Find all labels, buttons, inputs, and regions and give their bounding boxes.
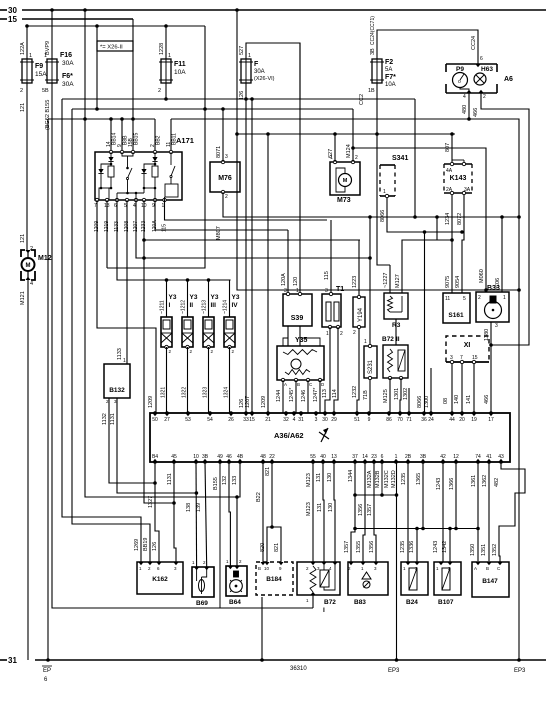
svg-text:6: 6 — [381, 454, 384, 460]
svg-text:BB11: BB11 — [172, 133, 178, 145]
svg-text:8066: 8066 — [380, 210, 386, 222]
svg-text:42: 42 — [440, 454, 446, 460]
svg-text:5: 5 — [463, 296, 466, 302]
svg-text:M123: M123 — [306, 502, 312, 516]
svg-text:S39: S39 — [291, 315, 304, 322]
svg-text:3: 3 — [450, 355, 453, 361]
svg-text:3: 3 — [315, 417, 318, 423]
svg-text:1365: 1365 — [416, 473, 422, 485]
svg-text:10: 10 — [193, 454, 199, 460]
svg-text:~1213: ~1213 — [202, 300, 208, 314]
svg-text:1: 1 — [248, 53, 251, 59]
svg-text:466: 466 — [484, 395, 490, 404]
svg-text:43: 43 — [498, 454, 504, 460]
svg-text:BB15: BB15 — [134, 133, 140, 145]
svg-text:36: 36 — [421, 417, 427, 423]
svg-text:S231: S231 — [368, 359, 374, 374]
svg-text:50: 50 — [152, 417, 158, 423]
svg-text:B4: B4 — [152, 454, 158, 460]
svg-text:~1211: ~1211 — [160, 300, 166, 314]
svg-text:M: M — [26, 263, 31, 269]
svg-text:130: 130 — [328, 503, 334, 512]
svg-text:B: B — [258, 566, 261, 571]
svg-text:14: 14 — [362, 454, 368, 460]
svg-text:131: 131 — [316, 473, 322, 482]
svg-text:4A: 4A — [446, 168, 453, 174]
svg-text:21: 21 — [265, 417, 271, 423]
svg-text:37: 37 — [352, 454, 358, 460]
svg-text:2: 2 — [483, 94, 486, 100]
svg-text:27: 27 — [164, 417, 170, 423]
svg-text:1: 1 — [29, 53, 32, 59]
svg-text:2: 2 — [20, 88, 23, 94]
svg-text:31: 31 — [8, 656, 17, 665]
svg-text:1234: 1234 — [445, 213, 451, 225]
svg-text:M123: M123 — [306, 473, 312, 487]
svg-text:1: 1 — [326, 331, 329, 337]
svg-text:M807: M807 — [216, 226, 222, 240]
svg-text:122A: 122A — [20, 42, 26, 55]
svg-text:1327: 1327 — [148, 496, 154, 508]
svg-text:K162: K162 — [152, 576, 168, 583]
svg-text:11: 11 — [445, 296, 450, 302]
svg-text:1356: 1356 — [358, 504, 364, 516]
svg-text:B: B — [297, 382, 300, 387]
svg-text:32: 32 — [283, 417, 289, 423]
svg-text:EP: EP — [43, 668, 51, 674]
svg-text:30A: 30A — [62, 60, 74, 67]
svg-text:2: 2 — [353, 330, 356, 336]
svg-text:120: 120 — [293, 277, 299, 286]
svg-text:807: 807 — [445, 143, 451, 152]
svg-text:140: 140 — [454, 395, 460, 404]
svg-text:S341: S341 — [392, 155, 408, 162]
svg-text:1131: 1131 — [167, 473, 173, 485]
svg-text:B147: B147 — [482, 578, 498, 585]
svg-text:A: A — [284, 382, 287, 387]
svg-text:1269: 1269 — [134, 539, 140, 551]
svg-text:~1212: ~1212 — [181, 300, 187, 314]
svg-text:2: 2 — [225, 194, 228, 200]
svg-text:1B: 1B — [368, 88, 375, 94]
svg-text:3B: 3B — [202, 454, 209, 460]
svg-text:4: 4 — [463, 94, 466, 100]
svg-text:1300: 1300 — [424, 396, 430, 408]
svg-text:A36/A62: A36/A62 — [274, 431, 304, 440]
svg-text:B69: B69 — [196, 600, 208, 607]
svg-text:08: 08 — [443, 398, 449, 404]
svg-text:2: 2 — [340, 331, 343, 337]
svg-text:1247*: 1247* — [313, 387, 319, 402]
svg-text:1: 1 — [364, 339, 367, 345]
svg-text:30: 30 — [322, 417, 328, 423]
svg-text:1352: 1352 — [492, 544, 498, 556]
svg-text:820: 820 — [260, 543, 266, 552]
svg-text:15: 15 — [8, 15, 17, 24]
svg-text:1235: 1235 — [400, 541, 406, 553]
svg-text:29: 29 — [331, 417, 337, 423]
svg-text:10: 10 — [264, 566, 270, 571]
svg-text:5B: 5B — [42, 88, 49, 94]
svg-text:B64: B64 — [229, 599, 241, 606]
svg-text:1235: 1235 — [401, 473, 407, 485]
svg-text:3: 3 — [225, 154, 228, 160]
svg-text:Y3: Y3 — [190, 294, 198, 301]
svg-text:M132A: M132A — [367, 470, 373, 488]
svg-text:3B: 3B — [420, 454, 427, 460]
svg-text:821: 821 — [274, 543, 280, 552]
svg-text:M132D: M132D — [391, 470, 397, 488]
svg-text:133: 133 — [232, 476, 238, 485]
svg-text:M124: M124 — [346, 144, 352, 158]
svg-text:1: 1 — [503, 295, 506, 301]
svg-text:1223: 1223 — [352, 276, 358, 288]
svg-text:26: 26 — [228, 417, 234, 423]
svg-text:1362: 1362 — [482, 475, 488, 487]
svg-text:138: 138 — [186, 503, 192, 512]
svg-text:48: 48 — [260, 454, 266, 460]
svg-text:8071: 8071 — [216, 146, 222, 158]
svg-text:A: A — [474, 566, 477, 571]
svg-text:M12: M12 — [38, 255, 52, 262]
svg-text:1323: 1323 — [203, 387, 209, 398]
svg-text:M060: M060 — [479, 269, 485, 283]
svg-text:Y3: Y3 — [169, 294, 177, 301]
svg-text:1246: 1246 — [301, 390, 307, 402]
svg-text:1322: 1322 — [182, 387, 188, 398]
svg-text:1366: 1366 — [449, 478, 455, 490]
svg-text:II: II — [190, 302, 194, 309]
svg-text:54: 54 — [207, 417, 213, 423]
svg-text:IV: IV — [232, 302, 239, 309]
svg-text:B22: B22 — [256, 492, 262, 502]
svg-text:1209: 1209 — [148, 396, 154, 408]
svg-text:1344: 1344 — [348, 470, 354, 482]
svg-text:F16: F16 — [60, 52, 72, 59]
svg-text:9: 9 — [368, 417, 371, 423]
svg-text:45: 45 — [171, 454, 177, 460]
svg-text:1321: 1321 — [161, 387, 167, 398]
svg-text:H63: H63 — [481, 66, 493, 73]
svg-text:1244: 1244 — [276, 390, 282, 402]
svg-text:1: 1 — [168, 53, 171, 59]
svg-text:1: 1 — [44, 53, 47, 59]
svg-text:33: 33 — [243, 417, 249, 423]
svg-text:482: 482 — [494, 478, 500, 487]
svg-text:7: 7 — [460, 355, 463, 361]
svg-text:B184: B184 — [266, 576, 282, 583]
svg-text:F: F — [254, 61, 259, 68]
svg-text:1243: 1243 — [433, 541, 439, 553]
svg-text:15: 15 — [249, 417, 255, 423]
svg-text:CC24: CC24 — [471, 36, 477, 50]
svg-text:17: 17 — [488, 417, 494, 423]
svg-text:F9: F9 — [35, 63, 43, 70]
svg-text:120A: 120A — [281, 273, 287, 286]
svg-text:B107: B107 — [438, 599, 454, 606]
svg-text:1207: 1207 — [245, 396, 251, 408]
svg-text:CC24(CC71): CC24(CC71) — [370, 16, 376, 45]
svg-text:~1227: ~1227 — [383, 273, 389, 288]
svg-text:627: 627 — [328, 149, 334, 158]
svg-text:(X26-VI): (X26-VI) — [254, 76, 275, 82]
svg-text:9075: 9075 — [445, 276, 451, 288]
svg-text:1357: 1357 — [367, 504, 373, 516]
svg-text:F2: F2 — [385, 59, 393, 66]
svg-text:P9: P9 — [456, 66, 464, 73]
svg-text:13: 13 — [331, 454, 337, 460]
svg-text:1232: 1232 — [352, 386, 358, 398]
svg-text:19: 19 — [471, 417, 477, 423]
svg-text:1: 1 — [383, 189, 386, 195]
svg-text:10A: 10A — [174, 69, 186, 76]
svg-text:1131: 1131 — [110, 413, 116, 425]
svg-text:15A: 15A — [35, 71, 47, 78]
svg-text:1351: 1351 — [481, 544, 487, 556]
svg-text:K143: K143 — [450, 175, 467, 182]
svg-text:5A: 5A — [385, 67, 392, 73]
svg-text:1357: 1357 — [344, 541, 350, 553]
svg-text:4: 4 — [293, 417, 296, 423]
svg-text:1209: 1209 — [261, 396, 267, 408]
svg-text:527: 527 — [239, 46, 245, 55]
svg-text:3: 3 — [495, 323, 498, 329]
svg-text:31: 31 — [298, 417, 304, 423]
svg-text:126: 126 — [152, 542, 158, 551]
svg-text:1133: 1133 — [117, 348, 123, 360]
svg-text:B72: B72 — [382, 336, 394, 343]
svg-text:XI: XI — [464, 342, 471, 349]
svg-text:F7*: F7* — [385, 74, 396, 81]
svg-text:40: 40 — [320, 454, 326, 460]
svg-text:8072: 8072 — [457, 213, 463, 225]
svg-text:M121: M121 — [20, 291, 26, 305]
svg-text:F6*: F6* — [62, 73, 73, 80]
svg-text:1228: 1228 — [159, 43, 165, 55]
svg-text:*= X26-II: *= X26-II — [100, 45, 123, 51]
svg-text:46: 46 — [226, 454, 232, 460]
svg-text:6: 6 — [480, 56, 483, 62]
svg-text:70: 70 — [397, 417, 403, 423]
svg-text:2B: 2B — [405, 454, 412, 460]
svg-text:1336: 1336 — [409, 541, 415, 553]
svg-text:121: 121 — [20, 234, 26, 243]
svg-text:4B: 4B — [237, 454, 244, 460]
svg-text:30A: 30A — [62, 81, 74, 88]
svg-text:115: 115 — [162, 224, 168, 232]
svg-text:24: 24 — [428, 417, 434, 423]
svg-text:BB2: BB2 — [156, 135, 162, 145]
svg-text:4: 4 — [30, 281, 33, 287]
svg-text:A6: A6 — [504, 76, 513, 83]
svg-text:B155: B155 — [213, 477, 219, 490]
svg-text:2: 2 — [158, 88, 161, 94]
svg-text:EP3: EP3 — [514, 668, 526, 674]
svg-text:55: 55 — [310, 454, 316, 460]
svg-text:1: 1 — [395, 454, 398, 460]
svg-text:121: 121 — [20, 103, 26, 112]
svg-text:M76: M76 — [218, 175, 232, 182]
svg-text:2: 2 — [355, 155, 358, 161]
svg-text:1350: 1350 — [470, 544, 476, 556]
svg-text:74: 74 — [475, 454, 481, 460]
svg-text:20: 20 — [459, 417, 465, 423]
svg-text:8066: 8066 — [417, 396, 423, 408]
svg-text:44: 44 — [449, 417, 455, 423]
svg-text:S161: S161 — [448, 312, 464, 319]
svg-text:M125: M125 — [383, 389, 389, 403]
svg-text:22: 22 — [269, 454, 275, 460]
svg-text:M: M — [343, 178, 348, 184]
svg-text:B: B — [486, 566, 489, 571]
svg-text:86: 86 — [386, 417, 392, 423]
svg-text:Y3: Y3 — [232, 294, 240, 301]
svg-text:131: 131 — [317, 503, 323, 512]
svg-text:B72: B72 — [324, 599, 336, 606]
svg-text:1324: 1324 — [224, 387, 230, 398]
svg-text:23: 23 — [371, 454, 377, 460]
svg-text:Y194: Y194 — [358, 307, 364, 322]
svg-text:466: 466 — [473, 108, 479, 117]
svg-text:130: 130 — [327, 473, 333, 482]
svg-text:113: 113 — [322, 389, 328, 398]
svg-text:A171: A171 — [176, 136, 194, 145]
svg-text:1342: 1342 — [442, 541, 448, 553]
svg-text:~1214: ~1214 — [223, 300, 229, 314]
svg-text:F11: F11 — [174, 61, 186, 68]
svg-text:115: 115 — [324, 271, 330, 280]
svg-text:T1: T1 — [336, 286, 344, 293]
svg-text:M132B: M132B — [375, 470, 381, 488]
svg-text:M132C: M132C — [384, 470, 390, 488]
svg-text:53: 53 — [185, 417, 191, 423]
svg-text:480: 480 — [462, 105, 468, 114]
svg-text:C06: C06 — [495, 278, 501, 288]
svg-text:12: 12 — [453, 454, 459, 460]
svg-text:EP3: EP3 — [388, 668, 400, 674]
svg-text:41: 41 — [486, 454, 492, 460]
svg-text:1243: 1243 — [436, 478, 442, 490]
svg-text:1: 1 — [123, 358, 126, 364]
svg-text:M73: M73 — [337, 197, 351, 204]
svg-text:141: 141 — [466, 395, 472, 404]
svg-text:3: 3 — [325, 288, 328, 294]
svg-text:B83: B83 — [354, 599, 366, 606]
svg-text:I: I — [323, 607, 325, 614]
svg-text:1302: 1302 — [403, 388, 409, 400]
svg-text:II: II — [396, 336, 400, 343]
svg-text:51: 51 — [354, 417, 360, 423]
svg-text:1361: 1361 — [471, 475, 477, 487]
svg-text:10A: 10A — [385, 82, 396, 88]
svg-text:821: 821 — [265, 467, 271, 476]
svg-text:1301: 1301 — [394, 388, 400, 400]
svg-text:15: 15 — [472, 355, 478, 361]
svg-text:CC2: CC2 — [359, 94, 365, 105]
svg-text:3B: 3B — [370, 48, 376, 55]
svg-text:B24: B24 — [406, 599, 418, 606]
svg-text:30A: 30A — [254, 69, 265, 75]
svg-text:30: 30 — [8, 6, 17, 15]
svg-text:49: 49 — [217, 454, 223, 460]
svg-text:1245*: 1245* — [289, 387, 295, 402]
svg-text:1132: 1132 — [102, 413, 108, 425]
svg-text:III: III — [211, 302, 217, 309]
svg-text:1355: 1355 — [356, 541, 362, 553]
svg-text:71B: 71B — [363, 390, 369, 400]
svg-text:M127: M127 — [395, 274, 401, 288]
svg-text:BB14: BB14 — [112, 133, 118, 145]
svg-text:36310: 36310 — [290, 666, 307, 672]
svg-text:132: 132 — [222, 476, 228, 485]
svg-text:2: 2 — [478, 295, 481, 301]
svg-text:Y3: Y3 — [211, 294, 219, 301]
svg-text:B132: B132 — [109, 387, 125, 394]
svg-text:9054: 9054 — [455, 276, 461, 288]
svg-text:I: I — [169, 302, 171, 309]
svg-text:2: 2 — [30, 246, 33, 252]
svg-text:1356: 1356 — [369, 541, 375, 553]
svg-text:139: 139 — [196, 503, 202, 512]
svg-text:71: 71 — [406, 417, 412, 423]
svg-text:114: 114 — [332, 389, 338, 398]
svg-text:BB19: BB19 — [143, 538, 149, 551]
